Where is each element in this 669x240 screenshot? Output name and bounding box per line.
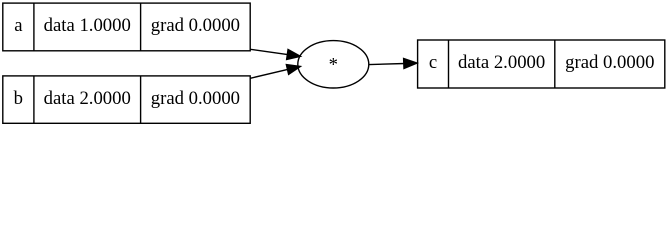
wire * to c <box>369 64 405 65</box>
node a cell divider 1 <box>33 3 35 51</box>
node a cell divider 2 <box>140 3 142 51</box>
node a record box <box>3 3 250 51</box>
svg-text:data 2.0000: data 2.0000 <box>44 88 131 109</box>
svg-text:data 2.0000: data 2.0000 <box>458 52 545 73</box>
svg-text:grad 0.0000: grad 0.0000 <box>151 88 240 109</box>
svg-text:b: b <box>14 88 23 109</box>
wire b to * <box>250 69 289 78</box>
svg-text:grad 0.0000: grad 0.0000 <box>151 15 240 36</box>
svg-text:a: a <box>14 15 23 36</box>
svg-text:*: * <box>329 54 338 75</box>
node c cell divider 1 <box>448 40 450 88</box>
node b cell divider 1 <box>33 76 35 123</box>
svg-text:c: c <box>429 52 437 73</box>
arrowhead a to * <box>286 49 301 60</box>
wire a to * <box>250 49 288 54</box>
op node * ellipse <box>298 41 369 88</box>
node b record box <box>3 76 250 123</box>
node c record box <box>418 40 665 88</box>
arrowhead * to c <box>403 58 417 69</box>
node c cell divider 2 <box>554 40 556 88</box>
arrowhead b to * <box>286 64 301 74</box>
svg-text:grad 0.0000: grad 0.0000 <box>565 52 654 73</box>
node b cell divider 2 <box>140 76 142 123</box>
svg-text:data 1.0000: data 1.0000 <box>44 15 131 36</box>
